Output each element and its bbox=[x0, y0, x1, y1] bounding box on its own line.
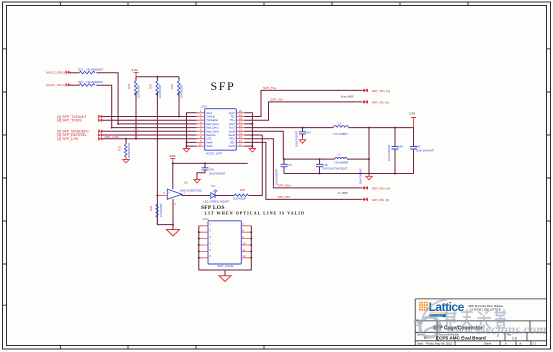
wire RD+ to off-page bbox=[245, 139, 362, 188]
svg-text:SFP_RD+ [4]: SFP_RD+ [4] bbox=[372, 186, 390, 190]
svg-text:R22: R22 bbox=[78, 68, 84, 72]
svg-text:CR-160802MT: CR-160802MT bbox=[86, 80, 103, 84]
watermark elecfans bbox=[415, 300, 547, 338]
svg-text:3.3V: 3.3V bbox=[169, 154, 175, 158]
node SFP_MODDEF0 port label bbox=[57, 129, 103, 133]
wire SFP_LOS bbox=[103, 138, 197, 140]
svg-text:12: 12 bbox=[243, 254, 246, 258]
node I2C_SCL3 port label bbox=[46, 83, 71, 87]
wire VeeT right pins to ground bbox=[245, 113, 253, 149]
wire SFP_TXFAULT bbox=[103, 116, 197, 118]
svg-text:100nF0402MT: 100nF0402MT bbox=[360, 168, 363, 185]
svg-text:SFP_CAGE: SFP_CAGE bbox=[218, 264, 234, 268]
svg-text:TxDisable: TxDisable bbox=[206, 118, 218, 122]
svg-text:SFP_RD-: SFP_RD- bbox=[278, 195, 291, 199]
svg-text:R24: R24 bbox=[127, 83, 131, 89]
svg-text:R25: R25 bbox=[148, 83, 152, 89]
inductor L3 bbox=[334, 152, 349, 164]
svg-text:RD-: RD- bbox=[230, 140, 235, 144]
wire I2C_SCL3 bbox=[70, 84, 79, 86]
svg-text:TD-: TD- bbox=[230, 115, 234, 119]
resistor R23 bbox=[78, 80, 103, 86]
svg-text:From: 4B2F: From: 4B2F bbox=[341, 96, 354, 99]
capacitor C48 bbox=[316, 159, 348, 173]
wire comparator supply rail bbox=[173, 163, 248, 189]
svg-text:10: 10 bbox=[243, 241, 246, 245]
svg-text:R26: R26 bbox=[170, 83, 174, 89]
ground right of CN3 bbox=[249, 149, 255, 153]
CN4 right pin stubs bbox=[241, 226, 251, 258]
wire I2C_SDA3 bbox=[70, 72, 79, 74]
svg-text:10: 10 bbox=[199, 143, 202, 147]
capacitor C45 bbox=[410, 145, 435, 153]
svg-text:VeeR: VeeR bbox=[228, 144, 234, 148]
wire cap branch C46 bbox=[394, 128, 396, 174]
svg-text:VccT: VccT bbox=[229, 126, 235, 130]
resistor R30 bbox=[233, 188, 249, 201]
wire VccR to filter bbox=[245, 131, 284, 159]
junction right ground bbox=[251, 123, 253, 125]
resistor R26 bbox=[170, 81, 184, 98]
svg-text:C44: C44 bbox=[209, 168, 215, 172]
resistor R29 bbox=[149, 203, 163, 217]
wire SFP_MODDEF0 bbox=[103, 130, 197, 132]
CN3 right pin numbers bbox=[239, 109, 242, 146]
wire CN4 ground stem bbox=[224, 270, 226, 276]
wire R29 to comparator gnd bbox=[157, 199, 173, 225]
node SFP_TD+ off-page port bbox=[362, 89, 390, 93]
svg-text:3010402MT: 3010402MT bbox=[233, 197, 247, 200]
svg-text:C47: C47 bbox=[287, 163, 293, 167]
svg-text:100nF0402MT: 100nF0402MT bbox=[209, 172, 226, 175]
wire LED to R30 bbox=[215, 195, 234, 197]
inductor L4 bbox=[333, 121, 348, 135]
svg-text:1.0: 1.0 bbox=[512, 336, 517, 340]
svg-text:[4] I2C_SCL3: [4] I2C_SCL3 bbox=[46, 83, 65, 87]
svg-text:Mod_Def.1: Mod_Def.1 bbox=[206, 126, 219, 130]
ground comparator bbox=[167, 230, 180, 237]
wire SDA to Mod_Def.2 bbox=[96, 73, 118, 124]
wire filter rail lower bbox=[284, 173, 414, 175]
svg-text:CN4: CN4 bbox=[203, 217, 209, 221]
svg-text:Mod_Def.0: Mod_Def.0 bbox=[206, 129, 219, 133]
connector CN4 SFP_CAGE body bbox=[203, 217, 242, 268]
svg-text:10uF-16V-B-MT: 10uF-16V-B-MT bbox=[416, 150, 434, 153]
capacitor C43 bbox=[296, 128, 312, 147]
svg-text:C43: C43 bbox=[306, 130, 312, 134]
CN3 right pin stubs bbox=[236, 113, 244, 146]
title block outline bbox=[415, 299, 546, 346]
svg-text:TxFault: TxFault bbox=[206, 115, 215, 119]
svg-text:YJH-1008MT: YJH-1008MT bbox=[333, 133, 348, 136]
resistor R31 on LOS bbox=[118, 139, 132, 158]
svg-text:Sheet: Sheet bbox=[484, 341, 492, 345]
svg-text:C45: C45 bbox=[415, 145, 421, 149]
resistor R24 bbox=[127, 81, 141, 98]
svg-text:VeeT: VeeT bbox=[229, 111, 235, 115]
svg-text:16: 16 bbox=[239, 124, 242, 128]
svg-text:LED_GREEN_0603MT: LED_GREEN_0603MT bbox=[203, 201, 229, 204]
junction C43 bbox=[302, 127, 304, 129]
junction gnd leg bbox=[172, 224, 174, 226]
svg-text:100nF0402MT: 100nF0402MT bbox=[276, 168, 279, 185]
svg-text:18: 18 bbox=[239, 117, 242, 121]
LED D4 bbox=[203, 184, 229, 204]
svg-text:10K0402MT: 10K0402MT bbox=[159, 84, 162, 98]
svg-text:SFP_RD- [4]: SFP_RD- [4] bbox=[372, 198, 390, 202]
wire Mod_Def.2 bbox=[118, 123, 196, 125]
svg-text:10K0402MT: 10K0402MT bbox=[160, 203, 163, 217]
svg-text:12: 12 bbox=[239, 139, 242, 143]
ground left of CN3 bbox=[183, 149, 189, 153]
svg-text:VeeT: VeeT bbox=[229, 122, 235, 126]
junction CN4 right bus bbox=[250, 231, 252, 233]
node I2C_SDA3 port label bbox=[46, 70, 71, 74]
svg-text:10K0402MT: 10K0402MT bbox=[181, 84, 184, 98]
svg-text:CN3: CN3 bbox=[201, 105, 207, 109]
wire comparator gnd stem bbox=[172, 225, 174, 229]
svg-text:HOST_SFP: HOST_SFP bbox=[206, 151, 222, 155]
wire SFP_RATESEL bbox=[103, 134, 197, 136]
svg-text:49R90402MT: 49R90402MT bbox=[128, 142, 131, 158]
resistor R25 bbox=[148, 81, 162, 98]
svg-text:[4] I2C_SDA3: [4] I2C_SDA3 bbox=[46, 71, 65, 75]
svg-text:VeeT: VeeT bbox=[206, 111, 212, 115]
CN3 left pin numbers bbox=[199, 109, 203, 146]
svg-text:SFP_TD+ [4]: SFP_TD+ [4] bbox=[372, 89, 390, 93]
power 3.3V right bbox=[409, 111, 416, 127]
wire VccT rail bbox=[245, 127, 414, 129]
svg-text:LIT WHEN OPTICAL LINE IS VALID: LIT WHEN OPTICAL LINE IS VALID bbox=[205, 211, 305, 216]
svg-text:To: 4B2F: To: 4B2F bbox=[338, 192, 348, 195]
node SFP_RD- off-page port bbox=[362, 198, 389, 202]
junction right rail bbox=[394, 127, 396, 129]
svg-text:C46: C46 bbox=[398, 145, 404, 149]
junction L3 rail bbox=[368, 127, 370, 129]
junction supply bbox=[172, 162, 174, 164]
node SFP_TD- off-page port bbox=[362, 100, 389, 104]
resistor R22 bbox=[78, 68, 103, 74]
capacitor C46 bbox=[388, 144, 403, 161]
svg-text:19: 19 bbox=[239, 113, 242, 117]
svg-text:VeeR: VeeR bbox=[228, 133, 234, 137]
svg-text:SFP_RD+: SFP_RD+ bbox=[278, 184, 292, 188]
svg-text:Date:: Date: bbox=[417, 341, 424, 345]
svg-text:SFP_TD-: SFP_TD- bbox=[271, 98, 284, 102]
ground below C44 bbox=[194, 180, 200, 184]
svg-text:17: 17 bbox=[239, 120, 242, 124]
wire CN4 left ground bus bbox=[199, 226, 225, 270]
CN3 left pin names bbox=[206, 111, 219, 148]
svg-text:3.3V: 3.3V bbox=[132, 68, 138, 72]
svg-text:L4: L4 bbox=[338, 121, 342, 125]
wire Mod_Def.1 bbox=[112, 127, 197, 129]
power 3.3V comparator bbox=[169, 154, 175, 163]
svg-text:CR-160802MT: CR-160802MT bbox=[86, 68, 103, 72]
wire R24 to SFP_LOS bbox=[135, 92, 137, 139]
svg-text:VeeR: VeeR bbox=[206, 140, 212, 144]
wire filter rail upper bbox=[283, 128, 369, 174]
wire VeeT pin1 to ground bbox=[187, 113, 197, 149]
svg-text:10K0402MT: 10K0402MT bbox=[138, 84, 141, 98]
wire TD- to off-page bbox=[245, 90, 362, 116]
wire R30 to VeeR bbox=[245, 135, 263, 196]
capacitor C44 bbox=[197, 163, 226, 179]
svg-text:R29: R29 bbox=[149, 205, 153, 211]
junction LOS taps bbox=[125, 138, 127, 140]
svg-text:U1: U1 bbox=[184, 181, 188, 185]
svg-text:R31: R31 bbox=[118, 145, 122, 151]
svg-text:L3: L3 bbox=[337, 152, 341, 156]
svg-text:100nF0402MT: 100nF0402MT bbox=[296, 130, 299, 147]
svg-text:3.3V: 3.3V bbox=[409, 111, 415, 115]
node SFP_RATESEL port label bbox=[57, 133, 103, 137]
junction lower rail bbox=[319, 173, 321, 175]
junction left ground bbox=[186, 141, 188, 143]
svg-text:of: of bbox=[519, 341, 522, 345]
wire comparator output bbox=[182, 194, 210, 195]
CN3 left pin stubs bbox=[197, 113, 205, 146]
ground below R31 bbox=[123, 157, 129, 163]
ground below C43 bbox=[299, 137, 305, 143]
wire TD+ to off-page bbox=[245, 102, 362, 120]
connector CN3 HOST_SFP body bbox=[201, 105, 236, 156]
svg-text:R23: R23 bbox=[78, 80, 84, 84]
svg-text:TD+: TD+ bbox=[230, 118, 235, 122]
svg-text:SFP_LOS: SFP_LOS bbox=[105, 135, 119, 139]
svg-text:SFP_TD- [4]: SFP_TD- [4] bbox=[372, 100, 389, 104]
ground CN4 bbox=[219, 276, 231, 282]
wire LOS to comparator input bbox=[157, 195, 167, 197]
junction comparator input bbox=[156, 195, 158, 197]
svg-text:1820 McCarthy Blvd. Milpitas: 1820 McCarthy Blvd. Milpitas bbox=[468, 304, 503, 308]
svg-text:D4: D4 bbox=[211, 184, 215, 188]
svg-text:100nF0402MT: 100nF0402MT bbox=[388, 144, 391, 161]
svg-text:YJH-1008MT: YJH-1008MT bbox=[334, 161, 349, 164]
Lattice logo dot grid bbox=[419, 302, 428, 311]
svg-text:VeeR: VeeR bbox=[206, 144, 212, 148]
wire pull-up rail bbox=[136, 77, 179, 81]
CN4 left pin numbers bbox=[210, 222, 212, 258]
node SFP_RD+ off-page port bbox=[362, 186, 390, 190]
svg-text:Mod_Def.2: Mod_Def.2 bbox=[206, 122, 219, 126]
op-amp U1 bbox=[163, 181, 201, 206]
svg-text:CAP-10uF-TA4T02MT: CAP-10uF-TA4T02MT bbox=[322, 167, 347, 170]
wire cap branch C45 bbox=[413, 128, 415, 174]
svg-text:RD+: RD+ bbox=[230, 137, 236, 141]
wire CN4 right ground bus bbox=[225, 226, 251, 270]
node SFP_TXFAULT port label bbox=[57, 115, 103, 119]
svg-text:13: 13 bbox=[239, 135, 242, 139]
junction pull-up rail bbox=[156, 76, 158, 78]
junction R26/TxFault bbox=[178, 116, 180, 118]
wire R26 to TxFault bbox=[178, 92, 180, 117]
svg-text:[4] SFP_LOS: [4] SFP_LOS bbox=[57, 137, 79, 141]
svg-text:C48: C48 bbox=[322, 163, 328, 167]
svg-text:VccR: VccR bbox=[229, 129, 235, 133]
node SFP_LOS port label bbox=[57, 137, 103, 141]
svg-text:www.elecfans.com: www.elecfans.com bbox=[447, 322, 547, 337]
CN4 right pin numbers bbox=[243, 222, 246, 258]
junction CN4 left bus bbox=[198, 231, 200, 233]
wire SCL to Mod_Def.1 bbox=[96, 85, 111, 127]
svg-text:R30: R30 bbox=[240, 188, 246, 192]
node SFP_TXDIS port label bbox=[57, 118, 103, 122]
wire R25 to comparator bbox=[156, 92, 158, 225]
svg-text:17: 17 bbox=[533, 341, 537, 345]
svg-text:15: 15 bbox=[239, 128, 242, 132]
capacitor C47 bbox=[276, 159, 293, 185]
svg-text:20: 20 bbox=[239, 109, 242, 113]
CN4 left pin stubs bbox=[199, 226, 208, 258]
power 3.3V pull-up rail bbox=[132, 68, 139, 77]
CN3 right pin names bbox=[228, 111, 235, 148]
svg-text:Friday, May 08, 2015: Friday, May 08, 2015 bbox=[426, 341, 453, 345]
svg-text:LOS: LOS bbox=[206, 137, 211, 141]
svg-text:SFP: SFP bbox=[211, 79, 236, 93]
wire RD- to off-page bbox=[245, 142, 362, 199]
ground below lower rail bbox=[366, 174, 372, 180]
svg-text:14: 14 bbox=[239, 131, 242, 135]
svg-text:SFP_TD+: SFP_TD+ bbox=[263, 86, 277, 90]
svg-text:RateSel: RateSel bbox=[206, 133, 216, 137]
wire SFP_TXDIS bbox=[103, 119, 197, 121]
svg-text:[4] SFP_TXDIS: [4] SFP_TXDIS bbox=[57, 118, 82, 122]
